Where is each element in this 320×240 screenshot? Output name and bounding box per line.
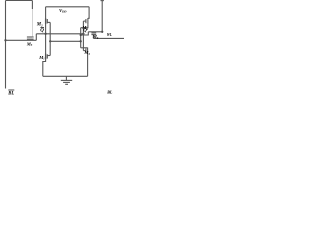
svg-text:VDD: VDD	[59, 8, 66, 14]
wire VDD rail	[46, 6, 90, 8]
transistor M2 pmos left: source from rail, inline channel	[45, 7, 47, 34]
transistor M2 gate bar	[46, 19, 48, 23]
wire WL left gate faint segment	[31, 9, 33, 37]
svg-text:WL: WL	[107, 32, 112, 37]
transistor M1 nmos left: inline channel	[45, 54, 47, 60]
wire top edge WL horizontal	[6, 0, 33, 2]
svg-text:BL: BL	[106, 89, 112, 94]
transistor M5 channel bar	[27, 38, 34, 40]
svg-text:Q: Q	[83, 28, 87, 33]
wire WL left gate stub (top)	[31, 1, 33, 10]
transistor M5 gate bar	[27, 36, 34, 38]
transistor M1 channel bar	[45, 54, 47, 60]
transistor M1 gate lead	[47, 55, 50, 57]
wire cross-couple upper (Qbar to right gates)	[36, 33, 83, 35]
wire BL right bitline	[101, 1, 103, 32]
transistor M4 pmos right: source from rail	[88, 7, 89, 18]
node dot Qbar	[44, 33, 46, 35]
transistor M2 channel bar	[45, 18, 47, 24]
transistor M4 gate bar	[85, 19, 87, 23]
transistor M6 access right: wire to BL	[88, 31, 102, 33]
wire M6 left lead down to Q wire	[81, 32, 89, 35]
transistor M4 gate lead	[83, 20, 86, 22]
transistor M5 gate lead up	[31, 37, 33, 38]
transistor M4 channel bar	[87, 18, 89, 24]
svg-text:Q: Q	[40, 29, 44, 34]
wire M4 drain elbow to Q	[81, 24, 88, 28]
node dot on Q vertical	[80, 40, 82, 42]
wire ground center stub	[65, 76, 67, 80]
transistor M3 channel bar	[87, 48, 89, 54]
label BLbar overline	[8, 89, 14, 91]
node BLbar junction dot	[4, 39, 6, 41]
wire right output vertical Q	[80, 28, 82, 48]
transistor M5 access left: wire from BLbar	[6, 39, 37, 41]
wire left output vertical Qbar	[45, 34, 47, 54]
ground symbol bars	[61, 79, 72, 81]
wire M5 right lead up to Qbar wire	[35, 34, 37, 41]
transistor M6 gate bar	[91, 34, 96, 36]
wire WL right segment	[93, 37, 124, 39]
transistor M1 gate bar	[46, 54, 48, 58]
wire cross-couple lower (Q to left gates)	[50, 40, 80, 42]
wire ground rail	[43, 75, 88, 77]
svg-text:M2: M2	[36, 23, 43, 28]
transistor M3 nmos right: drain stub	[81, 47, 88, 49]
node dot right gate line	[82, 33, 84, 35]
svg-text:BL: BL	[7, 92, 14, 97]
label Qbar overline	[40, 27, 44, 29]
wire M3 source to ground	[87, 54, 89, 77]
node dot M6 tap on Q vertical	[80, 34, 82, 36]
transistor M6 gate lead down to WL	[92, 35, 94, 39]
wire BLbar left bitline	[5, 1, 7, 89]
wire right gate line vertical	[82, 21, 84, 50]
svg-text:M5: M5	[26, 41, 33, 47]
svg-text:M3: M3	[83, 50, 90, 56]
transistor M6 channel bar	[91, 32, 96, 34]
transistor M3 gate bar	[85, 49, 87, 53]
transistor M3 gate lead	[83, 50, 86, 52]
transistor M2 gate lead	[47, 21, 50, 23]
wire M1 source to ground	[43, 59, 46, 76]
svg-text:M1: M1	[38, 55, 45, 61]
wire left gate line vertical	[49, 22, 51, 55]
svg-text:M6: M6	[92, 34, 99, 40]
6T SRAM cell schematic	[0, 0, 124, 99]
node BL top tick	[101, 0, 104, 2]
node BL junction dot	[101, 31, 103, 33]
node dot left gate line	[49, 40, 51, 42]
